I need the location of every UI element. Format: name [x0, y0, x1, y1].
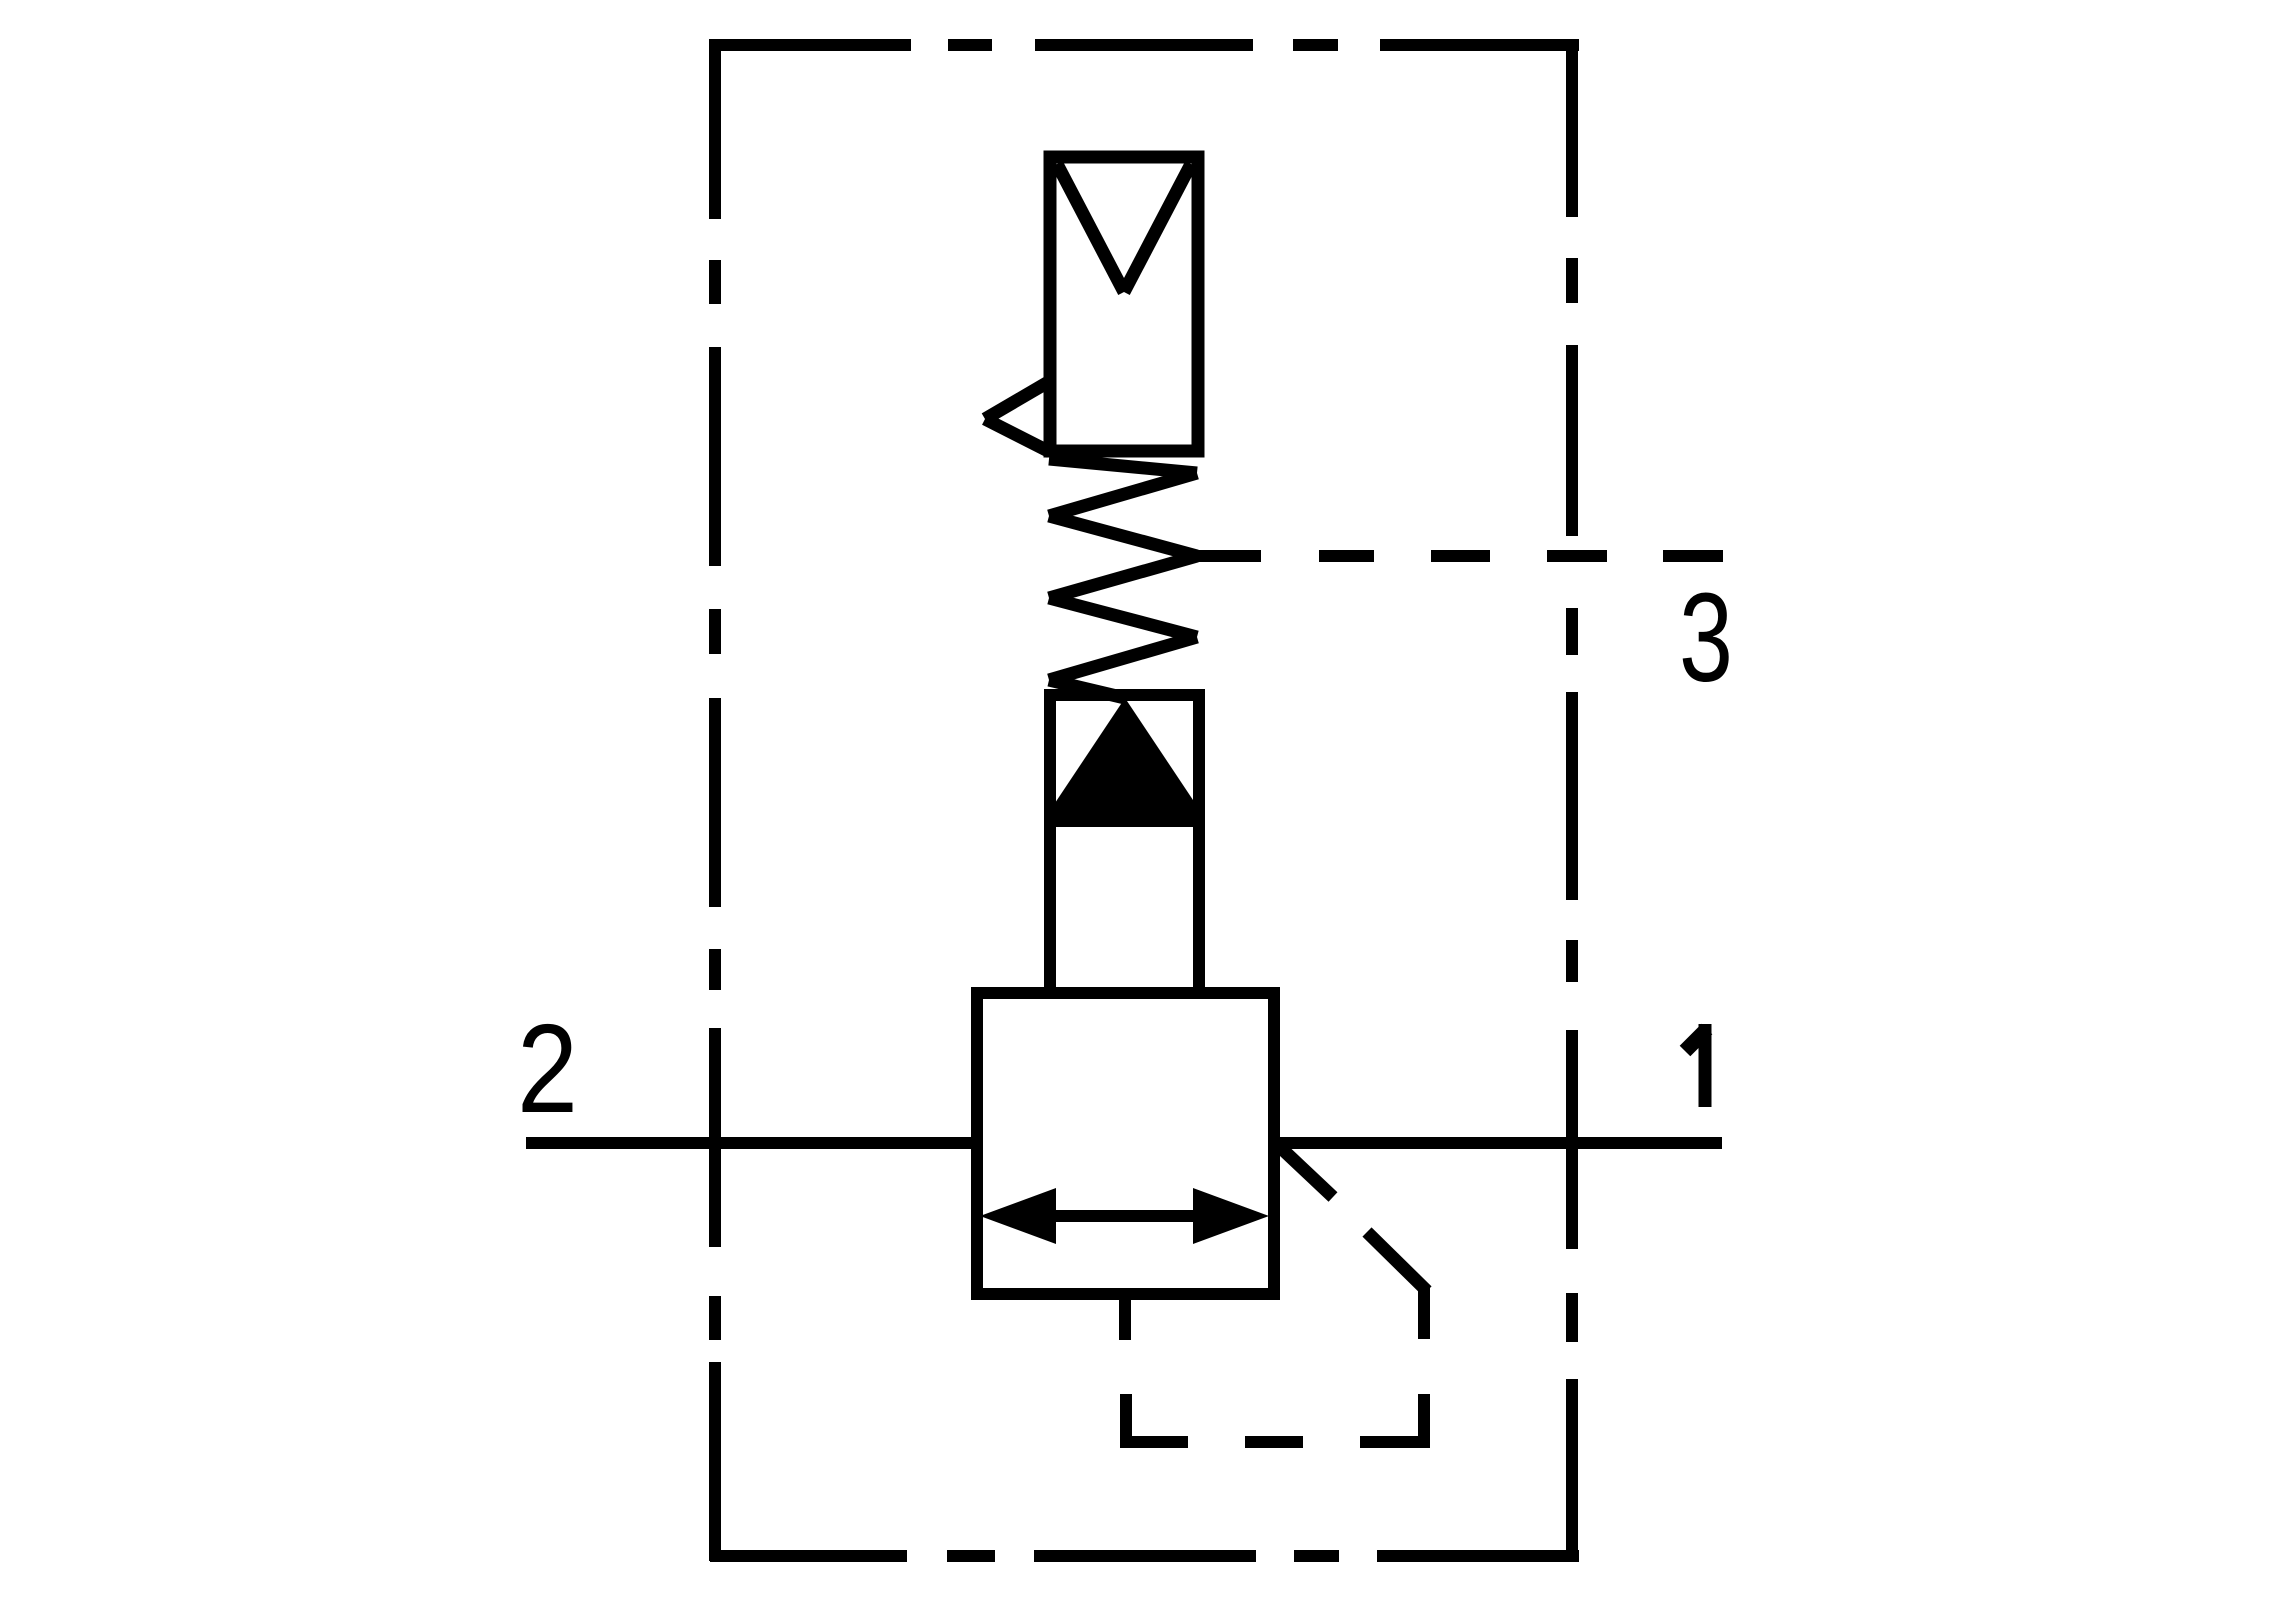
spring [1049, 459, 1197, 698]
double-headed flow arrow inside body [1050, 1210, 1200, 1222]
main line port 2 side [526, 1137, 983, 1149]
valve envelope (dash-dot enclosure) : left border [709, 39, 721, 1561]
valve envelope : right border [1566, 39, 1578, 1562]
port 2 label [517, 999, 578, 1140]
diagonal segment 2 [1367, 1232, 1427, 1291]
pilot box left vertical [1120, 1394, 1132, 1448]
pilot box bottom right corner [1360, 1436, 1430, 1448]
port 1 label [1685, 1024, 1707, 1107]
drain stub below body [1119, 1288, 1131, 1340]
adjustment / pilot dashed link : diagonal segment 1 [1281, 1148, 1333, 1197]
pilot box bottom left corner [1120, 1436, 1188, 1448]
main line port 1 side [1268, 1137, 1722, 1149]
pilot sense dashed line to port 3 [1197, 550, 1723, 562]
poppet stem box [1050, 695, 1199, 993]
vertical segment below diagonal [1418, 1286, 1430, 1339]
valve envelope : bottom border [710, 1550, 1579, 1562]
poppet seat V inside pilot box [1057, 164, 1191, 292]
pilot relief section box [1050, 157, 1198, 451]
svg-text:2: 2 [517, 999, 578, 1140]
pilot box bottom middle dash [1245, 1436, 1303, 1448]
svg-text:3: 3 [1679, 567, 1733, 708]
poppet (filled triangle) [1055, 698, 1195, 827]
vent arrowhead on pilot box left side [985, 381, 1050, 452]
valve envelope : top border [710, 39, 1579, 51]
port 3 label [1679, 567, 1733, 708]
pilot box right vertical [1418, 1394, 1430, 1448]
main spool body box [977, 993, 1274, 1294]
